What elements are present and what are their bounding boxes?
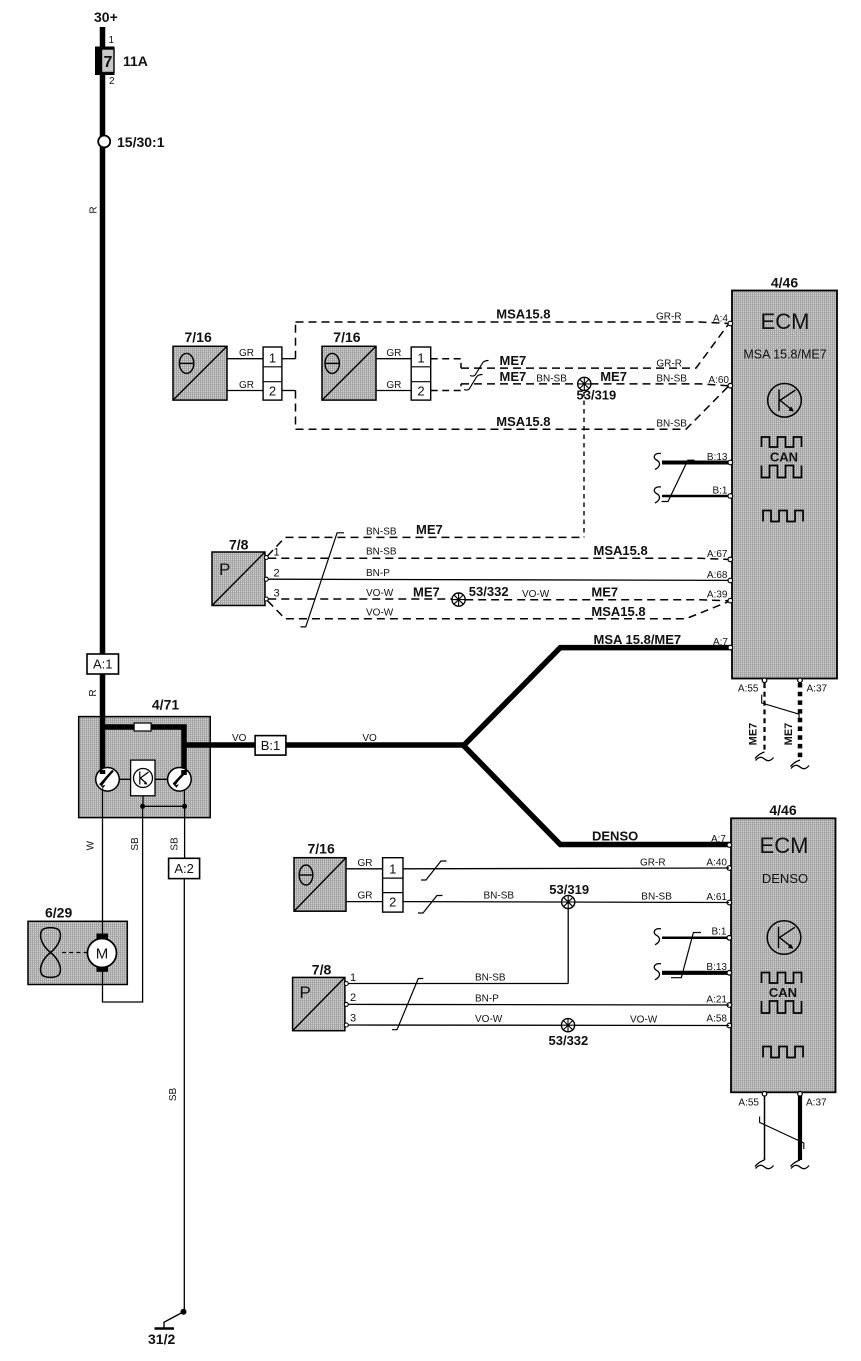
wire GR-R to A:40 [403,867,729,870]
connector A:1 [87,654,119,674]
pin B:13 + CAN wire thick [662,461,732,465]
svg-text:BN-SB: BN-SB [641,892,672,903]
pin box 7/16 first [263,347,282,400]
curl end A:55 wire [755,752,774,761]
curl end A:55 (DENSO) [755,1160,774,1169]
pin B:1 (DENSO) + CAN wire [662,937,731,940]
connector 7/16 (third, sensor DENSO) [294,841,346,912]
wire VO-W MSA15.8 (line4) dashed to A:39 [268,601,729,619]
hook B:1 start (DENSO) [654,929,661,945]
twisted pair mark (ME7 pair) [762,695,799,720]
wire from A:55 (DENSO) [764,1096,766,1160]
svg-text:MSA 15.8/ME7: MSA 15.8/ME7 [743,348,826,362]
svg-text:A:21: A:21 [706,995,727,1006]
pin A:67 [728,557,733,562]
pin A:55 bottom (ECM MSA) [762,678,767,683]
wire W to motor [102,789,104,937]
wire MSA15.8 bottom dashed to A:60 [296,387,729,430]
CAN waveform lower (DENSO) [762,1001,802,1013]
svg-text:R: R [89,206,100,213]
connector mark on BN-SB wire [418,896,443,914]
junction dot right [182,804,187,809]
svg-text:53/332: 53/332 [549,1033,589,1048]
svg-text:2: 2 [274,568,280,580]
svg-text:4/46: 4/46 [771,275,798,291]
wire dashed edge left (down to MSA15.8) [295,391,297,430]
node 15/30:1 [98,134,164,150]
svg-text:MSA15.8: MSA15.8 [594,543,648,558]
fuse 11A [95,35,148,87]
svg-text:BN-P: BN-P [366,568,390,579]
connector A:2 [169,858,200,878]
svg-text:GR: GR [386,348,401,359]
wire transistor link bar [119,778,167,780]
svg-text:ECM: ECM [761,309,810,334]
svg-text:A:61: A:61 [706,892,727,903]
svg-text:A:1: A:1 [93,657,113,672]
wire BN-SB MSA15.8 (line1) dashed to A:67 [268,558,728,559]
curl end A:37 wire [791,760,810,769]
connector mark on ME7 line 2 [464,375,483,391]
svg-text:VO: VO [232,733,247,744]
transistor Q1 (left, 4/71) [96,768,120,792]
pin A:7 (DENSO) [727,843,732,848]
wire BN-P (line2) solid to A:68 [268,579,728,580]
wire emitter bus with junctions [143,790,185,807]
ECM 4/46 DENSO [731,802,836,1092]
wire GR pin1 stub [227,358,263,360]
pin box 7/16 third [383,858,403,912]
svg-text:6/29: 6/29 [45,905,72,921]
pin A:37 bottom (DENSO) [798,1092,803,1097]
svg-text:2: 2 [389,895,396,910]
svg-text:53/332: 53/332 [469,584,509,599]
svg-text:1: 1 [389,862,396,877]
svg-text:4/46: 4/46 [769,802,796,818]
svg-text:2: 2 [350,992,356,1004]
svg-text:A:7: A:7 [713,637,728,648]
wire VO-W ME7 (line3) dashed to A:39 [268,599,728,601]
svg-text:53/319: 53/319 [549,882,589,897]
svg-text:ME7: ME7 [416,522,443,537]
pin 1 (7/8 second) [344,982,348,986]
pin box 7/16 second [411,347,431,400]
pin A:39 [728,598,733,603]
splice 53/319 (upper) [577,377,617,402]
hook B:13 start [654,453,661,469]
CAN waveform lower (ECM MSA) [762,466,802,478]
wire ME7 dashed from A:55 [763,683,765,752]
svg-text:B:1: B:1 [261,738,281,753]
pin 2 (7/8 second) [344,1002,348,1006]
connector mark on GR-R wire [421,861,447,880]
svg-text:VO-W: VO-W [630,1015,658,1026]
svg-text:DENSO: DENSO [762,871,808,886]
svg-text:ME7: ME7 [500,353,527,368]
wire GR pin2 stub (second) [376,390,411,392]
control unit symbol (circle-K) ECM DENSO [767,921,801,955]
pin A:58 [727,1023,732,1028]
wire GR pin1 stub (third) [346,868,383,870]
svg-text:P: P [300,983,311,1002]
svg-text:GR-R: GR-R [656,312,682,323]
wire VO-W pin3 to A:58 [348,1024,729,1027]
svg-text:1: 1 [417,351,424,366]
pin B:1 + CAN wire [662,495,732,498]
svg-text:A:60: A:60 [708,375,729,386]
svg-text:VO-W: VO-W [475,1014,503,1025]
connector 7/16 (first, sensor) [173,329,227,400]
svg-text:7/16: 7/16 [185,329,212,345]
svg-text:A:40: A:40 [706,858,727,869]
svg-text:DENSO: DENSO [592,829,638,844]
twisted pair mark (DENSO bottom pair) [760,1117,804,1150]
svg-text:ME7: ME7 [413,585,440,600]
wire SB from K-relay to motor return [103,806,143,1002]
svg-text:A:37: A:37 [807,684,828,695]
svg-text:A:39: A:39 [707,590,728,601]
svg-text:3: 3 [274,588,280,600]
svg-text:ME7: ME7 [500,369,527,384]
CAN waveform upper (DENSO) [762,973,802,984]
CAN waveform upper (ECM MSA) [762,437,802,447]
hook B:13 start (DENSO) [654,964,661,980]
wire splice drop to 7/8 pin1 [567,909,569,984]
svg-text:BN-SB: BN-SB [484,891,515,902]
svg-text:BN-SB: BN-SB [366,547,397,558]
svg-text:BN-SB: BN-SB [656,374,687,385]
svg-text:GR: GR [358,858,373,869]
svg-text:ME7: ME7 [591,585,618,600]
svg-text:GR: GR [358,891,373,902]
svg-text:BN-P: BN-P [475,994,499,1005]
wire SB to ground [183,806,185,1311]
svg-text:1: 1 [350,972,356,984]
svg-text:31/2: 31/2 [148,1331,175,1347]
svg-text:A:37: A:37 [806,1098,827,1109]
connector B:1 (inline) [232,733,377,755]
pin A:37 bottom (ECM MSA) [798,678,803,683]
svg-text:2: 2 [417,384,424,399]
wire dashed pin1 corner to ME7 line [431,359,461,368]
inline link box on 4/71 internal wire [134,723,151,731]
svg-text:30+: 30+ [94,9,118,25]
svg-text:MSA15.8: MSA15.8 [496,414,550,429]
wire MSA15.8 top dashed to A:4 [296,322,729,324]
svg-text:7/16: 7/16 [308,841,335,857]
svg-text:3: 3 [350,1013,356,1025]
waveform PWM (DENSO) [763,1047,803,1058]
svg-text:ECM: ECM [760,833,809,858]
wire main output (VO) to Y-split [184,742,464,748]
svg-text:B:13: B:13 [707,452,728,463]
control unit symbol (circle-K) ECM MSA [768,384,802,418]
svg-text:1: 1 [274,547,280,559]
component 6/29 fan motor [28,905,127,985]
pin A:55 bottom (DENSO) [762,1092,767,1097]
svg-text:A:7: A:7 [711,834,726,845]
fan blade symbol [41,928,61,978]
wire ME7 line1 dashed to A:4 [461,325,728,368]
svg-text:SB: SB [168,1088,179,1102]
svg-text:2: 2 [269,384,276,399]
svg-text:7: 7 [104,54,113,71]
pin A:61 [727,900,732,905]
svg-text:7/8: 7/8 [229,537,249,553]
twisted pair mark (DENSO CAN) [671,933,701,978]
pin A:21 [727,1003,732,1008]
wire Y-split upper branch to ECM MSA A:7 [464,648,732,746]
svg-text:1: 1 [269,351,276,366]
svg-text:B:1: B:1 [712,486,727,497]
svg-text:P: P [219,560,230,579]
svg-text:GR: GR [239,380,254,391]
svg-text:53/319: 53/319 [577,388,617,403]
svg-text:SB: SB [130,837,141,851]
pin A:40 [727,866,732,871]
curl end A:37 (DENSO) [791,1160,810,1169]
connector 7/16 (second, sensor) [322,329,376,400]
wire GR pin1 stub (second) [376,358,411,360]
svg-text:B:1: B:1 [711,927,726,938]
svg-text:BN-SB: BN-SB [366,527,397,538]
svg-text:GR-R: GR-R [640,858,666,869]
wire main battery feed (vertical) [100,27,106,773]
svg-text:W: W [86,840,97,850]
splice 53/319 (DENSO) [549,882,589,909]
svg-text:BN-SB: BN-SB [656,419,687,430]
svg-text:VO-W: VO-W [366,588,394,599]
svg-text:GR-R: GR-R [656,359,682,370]
wire from A:37 (DENSO) thick [798,1096,802,1160]
connector mark (7/8 second harness slash) [392,979,423,1030]
wire BN-SB to splice and A:61 [403,901,729,904]
pin A:60 [728,383,733,388]
svg-text:7/16: 7/16 [333,329,360,345]
svg-text:7/8: 7/8 [312,962,332,978]
svg-text:SB: SB [170,837,181,851]
wire dashed edge left (up to MSA15.8) [295,322,297,359]
pin 3 (7/8 second) [344,1023,348,1027]
wire BN-SB pin1 to splice riser [348,983,568,985]
svg-text:M: M [96,946,109,963]
svg-text:2: 2 [109,76,115,87]
svg-text:A:58: A:58 [706,1014,727,1025]
wire GR pin2 stub [227,390,263,392]
wire GR pin2 stub (third) [346,901,383,903]
svg-text:MSA 15.8/ME7: MSA 15.8/ME7 [594,632,682,647]
svg-text:VO: VO [362,733,377,744]
svg-text:R: R [88,689,99,696]
relay K box (4/71) [131,760,155,796]
pin A:7 thick [728,645,733,650]
svg-text:4/71: 4/71 [152,697,179,713]
ECM 4/46 MSA 15.8/ME7 [732,275,837,679]
twisted pair mark (ECM MSA CAN) [662,460,695,501]
wire stub pin1 to dashed edge [282,358,296,360]
svg-text:A:55: A:55 [738,1098,759,1109]
wire thick branch inside 4/71 [100,716,184,772]
svg-text:A:4: A:4 [713,314,728,325]
ground 31/2 [148,1309,187,1347]
connector 7/8 (first, pressure sensor) [212,537,265,606]
wire ME7 line2 dashed to A:60 [461,384,728,386]
svg-text:VO-W: VO-W [522,589,550,600]
svg-text:11A: 11A [123,53,148,69]
svg-text:ME7: ME7 [600,369,627,384]
svg-text:ME7: ME7 [748,723,760,746]
splice 53/332 (upper) [452,584,509,606]
svg-text:B:13: B:13 [706,962,727,973]
wire dashed pin2 corner to ME7 line [431,384,461,391]
connector mark on ME7 line 1 [470,361,489,377]
svg-text:BN-SB: BN-SB [536,374,567,385]
svg-text:GR: GR [239,348,254,359]
wire ME7 dotted thick from A:37 [798,683,803,760]
dashed shaft link [62,952,87,954]
svg-text:CAN: CAN [769,985,797,1000]
svg-text:BN-SB: BN-SB [475,973,506,984]
pin 3 (7/8 first) [264,597,268,601]
svg-text:MSA15.8: MSA15.8 [591,604,645,619]
splice 53/332 (DENSO) [549,1019,589,1048]
svg-text:A:55: A:55 [738,684,759,695]
svg-text:A:2: A:2 [174,861,194,876]
component 4/71 fan control unit [79,697,211,818]
svg-text:GR: GR [386,380,401,391]
connector 7/8 (second, pressure sensor DENSO) [293,962,345,1031]
wire Y-split lower branch to ECM DENSO A:7 [464,746,731,845]
svg-text:A:68: A:68 [707,570,728,581]
svg-text:1: 1 [109,35,115,46]
junction dot left [140,804,145,809]
wire stub pin2 to dashed edge [282,390,296,392]
wire BN-P pin2 to A:21 [348,1003,729,1006]
pin A:68 [728,578,733,583]
pin 2 (7/8 first) [264,577,268,581]
svg-text:ME7: ME7 [783,723,795,746]
pin B:13 (DENSO) + CAN wire thick [662,971,731,975]
pin 1 (7/8 first) [264,556,268,560]
svg-text:MSA15.8: MSA15.8 [496,307,550,322]
svg-text:VO-W: VO-W [366,608,394,619]
transistor Q2 (right, 4/71) [168,768,192,792]
svg-text:15/30:1: 15/30:1 [117,134,165,150]
hook B:1 start [654,487,661,503]
wire BN-SB/ME7 branch (line0) dashed [268,537,585,556]
svg-text:CAN: CAN [770,450,798,465]
motor M (6/29) [88,921,117,985]
connector mark (7/8 first harness slash) [301,533,345,627]
pin A:4 [728,321,733,326]
waveform PWM (ECM MSA) [763,511,803,522]
wire dashed splice drop to 7/8 BN-SB/ME7 [583,392,585,537]
